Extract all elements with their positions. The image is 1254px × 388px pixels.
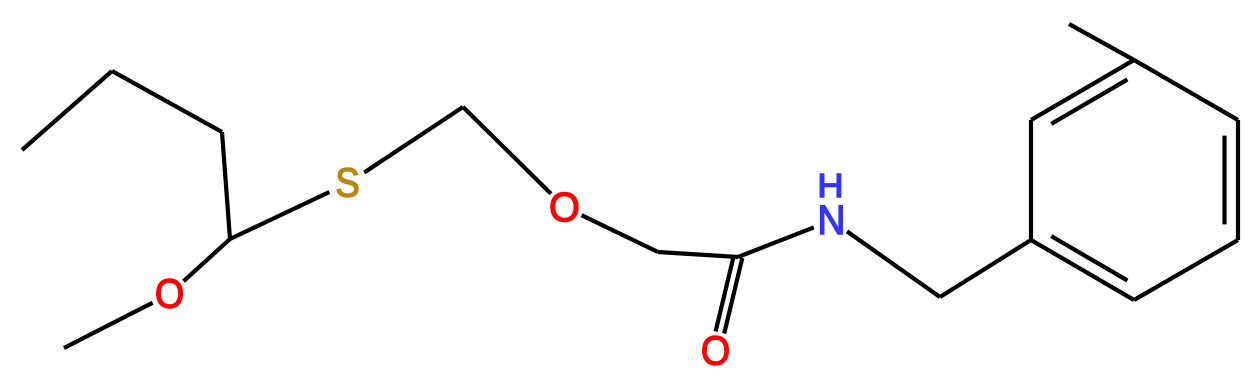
svg-text:O: O bbox=[155, 271, 184, 317]
bond C2-C3 bbox=[1031, 60, 1134, 120]
svg-text:O: O bbox=[701, 328, 730, 374]
bond CH2b-Cc bbox=[112, 71, 222, 132]
svg-text:O: O bbox=[549, 184, 580, 231]
bond Va-O1 bbox=[184, 239, 230, 281]
bond CH2m-C bbox=[658, 252, 738, 257]
bond C6-C1 bbox=[1031, 240, 1134, 300]
bond C-O3 bbox=[716, 256, 734, 332]
bond Cc-Va bbox=[222, 132, 230, 239]
bond O1-CH3e bbox=[64, 303, 153, 348]
bond C3-C4 bbox=[1134, 60, 1238, 120]
svg-text:H: H bbox=[817, 168, 843, 204]
svg-text:S: S bbox=[335, 161, 359, 206]
bond S-W1 bbox=[364, 107, 463, 173]
bond C4-C5 bbox=[1236, 120, 1240, 240]
bond C5-C6 bbox=[1134, 240, 1238, 300]
svg-text:N: N bbox=[817, 198, 845, 243]
bond CH3a-CH2b bbox=[22, 71, 112, 150]
bond Va-S bbox=[230, 192, 329, 239]
bond N-V1 bbox=[847, 231, 940, 297]
bond O2-CH2m bbox=[582, 215, 658, 252]
bond W1-O2 bbox=[463, 107, 551, 194]
bond C3-Me bbox=[1069, 24, 1134, 60]
bond C1-C2 bbox=[1029, 120, 1033, 240]
bond C-N bbox=[738, 227, 814, 257]
bond V1-C1 bbox=[940, 240, 1031, 297]
